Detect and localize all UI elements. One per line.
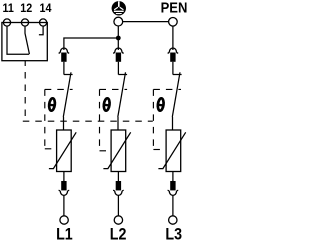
label 14 — [40, 2, 53, 15]
svg-text:11: 11 — [3, 2, 15, 15]
changeover blade from terminal 12 — [25, 26, 29, 54]
thermal disconnect switch P3 — [172, 72, 181, 117]
varistor F3 — [158, 130, 185, 172]
PEN terminal — [169, 18, 178, 27]
terminal 14 — [40, 19, 47, 26]
svg-text:L3: L3 — [165, 226, 182, 242]
wire PE terminal down — [117, 26, 119, 50]
wire P2 to terminal — [117, 196, 119, 216]
wire PEN down to phase 3 — [172, 26, 174, 50]
bus wire PE to PEN — [123, 21, 169, 23]
varistor F2 — [103, 130, 130, 172]
label L2 — [110, 226, 127, 242]
wire P2 to varistor — [117, 117, 119, 130]
thermal release symbol theta P2 — [103, 98, 111, 111]
svg-text:14: 14 — [40, 2, 53, 15]
label L1 — [56, 226, 73, 242]
node junction dot — [116, 36, 121, 41]
wire P1 to terminal — [63, 196, 65, 216]
plug-in contact bottom P3 — [168, 181, 179, 195]
label 11 — [3, 2, 15, 15]
wire P1 varistor to plug — [63, 172, 65, 182]
plug-in contact bottom P2 — [113, 181, 124, 195]
remote signalling contact box K1 — [2, 23, 47, 61]
wire P3 varistor to plug — [172, 172, 174, 182]
thermal disconnect switch P1 — [63, 72, 72, 117]
label PEN — [161, 0, 188, 16]
plug-in contact bottom P1 — [59, 181, 70, 195]
wire P2 varistor to plug — [117, 172, 119, 182]
wire P2 — [117, 62, 119, 75]
wire bus B to phase 1 — [64, 38, 118, 50]
label 12 — [20, 2, 32, 15]
wire P1 to varistor — [63, 117, 65, 130]
thermal release symbol theta P3 — [157, 98, 165, 111]
PE terminal — [114, 17, 123, 26]
plug-in contact top P2 — [113, 48, 124, 62]
svg-text:L1: L1 — [56, 226, 73, 242]
svg-text:12: 12 — [20, 2, 32, 15]
thermal release symbol theta P1 — [48, 98, 56, 111]
svg-text:L2: L2 — [110, 226, 127, 242]
plug-in contact top P3 — [168, 48, 179, 62]
terminal L2 — [114, 216, 122, 224]
terminal 12 — [21, 19, 28, 26]
PE symbol — [112, 1, 126, 15]
svg-text:PEN: PEN — [161, 0, 187, 16]
varistor F1 — [49, 130, 76, 172]
label L3 — [165, 226, 182, 242]
contact 11 internal wire — [7, 26, 29, 54]
module enclosure dashed P3 — [153, 89, 181, 149]
terminal L3 — [169, 216, 177, 224]
fixed contact of terminal 14 — [39, 26, 43, 35]
module enclosure dashed P1 — [45, 89, 73, 149]
dashed link from contact box — [24, 61, 26, 120]
plug-in contact top P1 — [59, 48, 70, 62]
wire P3 to varistor — [172, 117, 174, 130]
wire P3 — [172, 62, 174, 75]
terminal 11 — [3, 19, 10, 26]
wire P3 to terminal — [172, 196, 174, 216]
dashed enclosure bottom line — [23, 120, 153, 122]
module enclosure dashed P2 — [100, 89, 128, 151]
wire P1 — [63, 62, 65, 75]
terminal L1 — [60, 216, 68, 224]
thermal disconnect switch P2 — [118, 72, 127, 117]
